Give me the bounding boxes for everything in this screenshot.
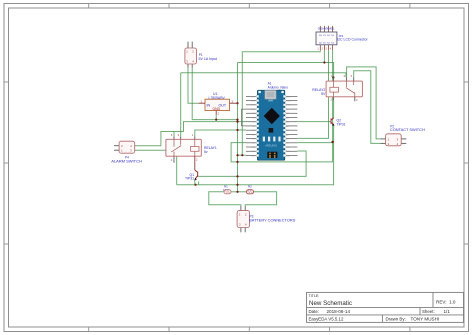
svg-text:GND: GND [250,109,255,111]
wire SCL vertical [332,50,334,162]
wire JP1 pin1 GND run [242,50,320,155]
connector P2 CONTACT SWITCH [381,125,425,146]
nano reset jumper bracket [242,109,246,126]
nano top corner pads [258,91,260,93]
svg-text:VIN: VIN [286,96,290,98]
nano pin name labels [250,96,255,157]
svg-text:TITLE:: TITLE: [309,294,320,298]
wire R1 left to P3 pin1 [209,192,241,206]
frame row ticks right [464,82,469,244]
connector P4 ALARM SWITCH [111,141,142,163]
wire P1 pin3 to U1 IN [188,68,199,104]
nano pin leads right [285,96,298,155]
nano small ic [269,128,274,133]
nano pads left [256,95,259,156]
relay RELAY2 5V [312,74,362,102]
svg-text:I2C LCD Connector: I2C LCD Connector [337,37,368,41]
svg-text:GND: GND [286,101,291,103]
wire relay1 contact pin drop [173,132,175,137]
svg-text:REV: 1.0: REV: 1.0 [436,299,456,304]
wire nano D5 loop to Q2 emitter net [231,143,333,162]
svg-text:TIP31: TIP31 [185,177,194,181]
svg-text:1/1: 1/1 [444,309,451,314]
wire R2 right to P3 pin2 [245,192,276,206]
wire 5V rail vertical [237,63,239,192]
nano icsp header [267,152,277,158]
frame row ticks left [4,82,9,244]
wire nano D9 to Q2 base [297,121,330,123]
regulator U1 L7805ABV [199,92,238,116]
wire 5V top run to RELAY2 coil [238,63,334,78]
svg-text:Drawn By:: Drawn By: [386,317,406,322]
svg-text:Date:: Date: [309,309,320,314]
junction dots [194,61,334,193]
svg-text:5V 1A Input: 5V 1A Input [199,57,218,61]
wire alarm switch bottom to battery line [135,150,177,185]
nano passives row [263,137,265,142]
wire R1 R2 middle segment [231,191,247,193]
svg-text:2018-06-14: 2018-06-14 [327,309,351,314]
svg-text:Arduino_Nano: Arduino_Nano [268,85,289,89]
transistor Q2 TIP31 [331,118,346,127]
title block [307,292,464,322]
wire siren rail horizontal to RELAY2 contact [181,73,346,77]
wire battery plus line [177,125,334,185]
wire relay1 coil to nano pin D6 [195,130,246,136]
transistor Q1 TIP31 [185,156,198,185]
wire U1 GND drop [215,115,217,120]
wire SDA vertical into nano A4 [297,50,328,138]
frame column ticks bottom [89,327,410,332]
svg-text:5v: 5v [204,150,208,154]
resistor R1 100k [223,185,231,194]
svg-text:5V: 5V [321,92,326,96]
connector P3 BATTERY CONNECTORS [237,206,296,233]
frame column ticks top [89,4,410,9]
wire siren rail vertical to RELAY1 pin [180,73,182,137]
nano pin leads left [246,96,257,155]
svg-text:TIP31: TIP31 [337,122,346,126]
svg-text:ARDUINO: ARDUINO [265,143,277,147]
nano pads right [283,95,286,156]
svg-text:TONY MUSHI: TONY MUSHI [411,317,440,322]
wire JP1 pin2 drop to 5V [323,50,325,62]
wire P1 pin4 to GND rail [192,68,237,120]
svg-text:REF: REF [286,147,291,149]
wire nano D12 to Q1 base line [198,151,306,176]
nano mcu chip diamond [264,108,280,124]
svg-text:SCL: SCL [330,28,335,30]
connector JP1 I2C LCD [316,26,368,51]
svg-text:RST: RST [286,105,291,107]
wire relay2 contact NC to P2 pin2 [354,71,381,144]
svg-text:BATTERY CONNECTORS: BATTERY CONNECTORS [249,218,296,223]
svg-text:Sheet:: Sheet: [422,309,435,314]
wire relay2 contact NO to P2 pin1 [347,67,381,139]
arduino A1 Arduino_Nano [242,81,298,160]
wire SCL into nano A5 [297,142,332,144]
wire GND rail into nano pin [238,154,247,156]
svg-text:RST: RST [251,105,256,107]
svg-text:CONTACT SWITCH: CONTACT SWITCH [390,127,425,132]
svg-text:New Schematic: New Schematic [309,300,352,307]
resistor R2 10k [247,185,254,194]
svg-text:ALARM SWITCH: ALARM SWITCH [111,159,142,164]
relay RELAY1 5v [166,133,217,163]
svg-text:EasyEDA V5.5.12: EasyEDA V5.5.12 [309,317,344,322]
svg-text:GND: GND [213,107,221,111]
wire alarm switch top to relay1 pin and nano [135,122,246,146]
wire Q2 collector to relay2 coil [333,100,335,117]
title block text [309,294,456,322]
nano board [257,90,284,160]
connector P1 5V 1A Input [185,42,217,68]
nano usb connector [265,90,276,99]
wire Q1 emitter drop [198,181,200,184]
svg-text:IN: IN [207,104,211,108]
